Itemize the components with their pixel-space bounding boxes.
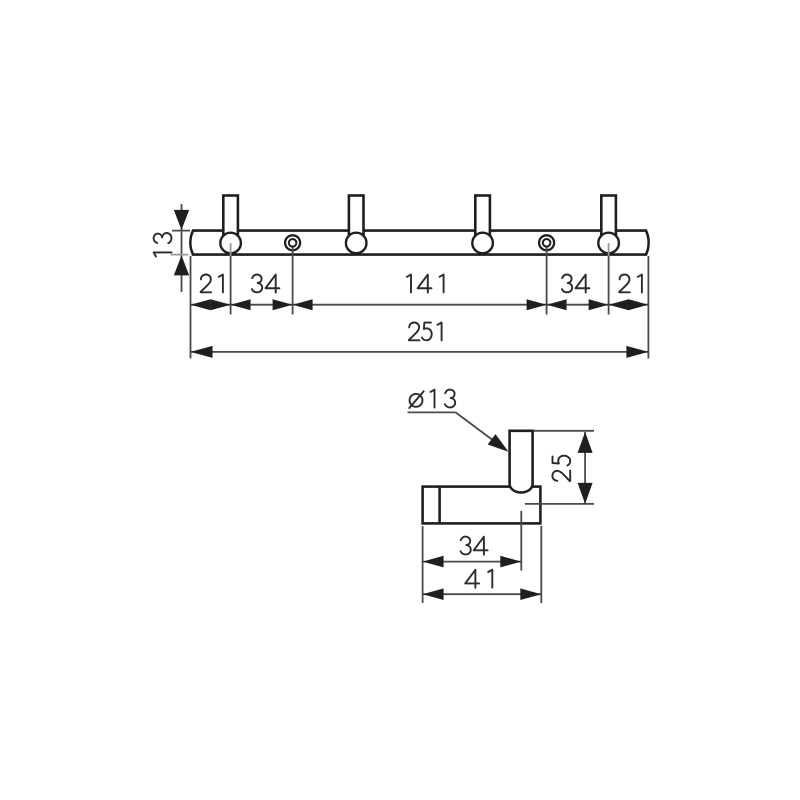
dim 13 top tick: [172, 230, 190, 232]
label 41: [465, 570, 492, 588]
gray centre stub hook 1: [230, 243, 232, 256]
hook body: [423, 487, 541, 524]
extension line bar right end: [647, 256, 649, 359]
hook ball 3: [472, 233, 493, 254]
dim 25 arrow down: [578, 483, 593, 504]
arrow left of second 34: [547, 299, 567, 310]
dimension 13 vertical line: [181, 204, 183, 292]
label 251: [409, 323, 442, 341]
dia 13 leader line: [456, 412, 498, 444]
label 13: [154, 233, 172, 257]
dimension 41 line: [423, 593, 542, 595]
screw hole 1 inner: [289, 239, 297, 247]
dim 13 bottom gray tick: [171, 254, 189, 256]
screw hole 2 inner: [543, 239, 551, 247]
arrow left of 141: [293, 299, 313, 310]
screw hole 2 outer: [539, 235, 554, 250]
dim 41 arrow left: [423, 588, 444, 600]
dim 25 arrow up: [578, 432, 593, 453]
arrow left of second 21: [609, 299, 629, 310]
arrow right of 141: [527, 299, 547, 310]
dimension line row 1: [191, 304, 649, 306]
bar outline: [190, 231, 648, 255]
hook ball 2: [346, 233, 367, 254]
dimension 34 line: [423, 561, 522, 563]
dia 13 underline: [408, 411, 456, 413]
extension line bar left end: [190, 256, 192, 359]
dim 13 arrow down: [174, 210, 189, 230]
extension line screw hole 2 centre: [546, 248, 548, 315]
pin top extension line: [534, 430, 594, 432]
dia 13 leader arrow: [488, 434, 509, 452]
dim 13 arrow up: [174, 255, 189, 275]
arrow left of 21: [191, 299, 211, 310]
extension line body left: [422, 526, 424, 603]
dim 41 arrow right: [520, 588, 541, 600]
label 141: [407, 275, 444, 293]
body wall plate line: [438, 487, 441, 524]
extension line hook 1 centre: [230, 256, 232, 315]
body centre extension line: [525, 503, 594, 505]
label 21 right: [619, 275, 642, 293]
arrow right of second 21: [628, 299, 648, 310]
dimension line row 2 (251): [191, 351, 649, 353]
dim 34 arrow left: [423, 556, 444, 568]
hook ball 4: [598, 233, 619, 254]
label 34 bottom: [461, 537, 488, 555]
arrow left of 34: [231, 299, 251, 310]
extension line screw hole 1 centre: [292, 248, 294, 315]
label 34 right: [562, 275, 589, 293]
arrow right of 251: [626, 346, 648, 358]
extension line body right: [540, 526, 542, 603]
screw hole 1 outer: [285, 235, 300, 250]
hook ball 1: [220, 233, 241, 254]
extension line hook 4 centre: [608, 256, 610, 315]
arrow right of 34: [273, 299, 293, 310]
label dia 13: [409, 390, 455, 408]
hook stem 3: [475, 196, 490, 240]
gray centre stub hook 4: [608, 243, 610, 256]
arrow right of second 34: [589, 299, 609, 310]
hook stem 4: [601, 196, 616, 240]
hook stem 2: [349, 196, 364, 240]
hook stem 1: [223, 196, 238, 240]
label 25: [552, 456, 570, 481]
extension line pin centre: [520, 511, 522, 571]
dim 34 arrow right: [500, 556, 521, 568]
arrow left of 251: [191, 346, 213, 358]
label 21 left: [201, 275, 223, 293]
label 34 left: [252, 275, 279, 293]
arrow right of 21: [211, 299, 231, 310]
hook pin: [510, 431, 533, 493]
dimension 25 line: [584, 432, 586, 504]
